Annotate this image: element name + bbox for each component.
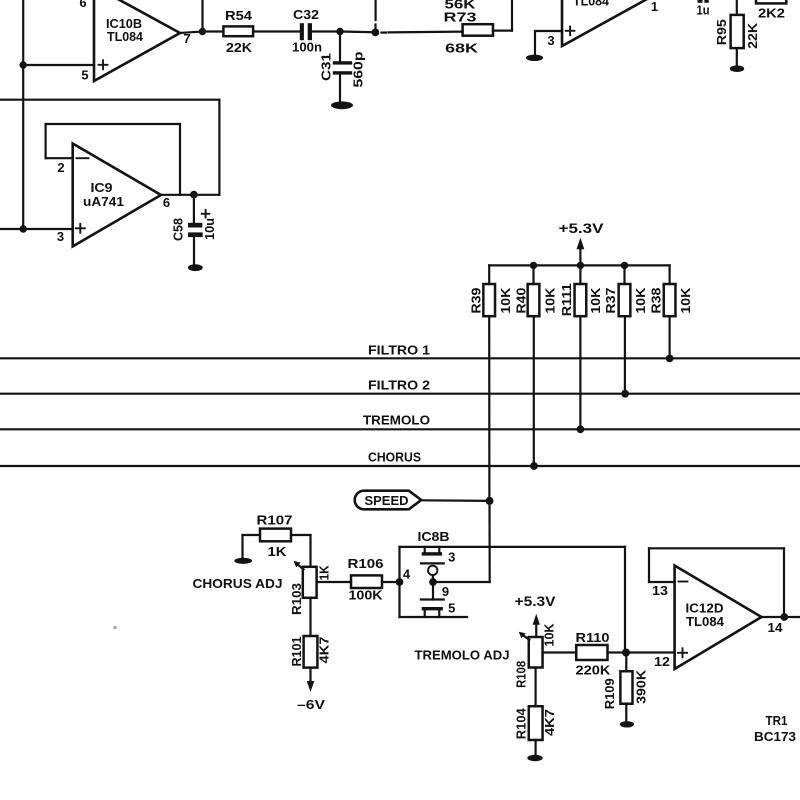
label -6V [297,697,325,712]
svg-text:+5.3V: +5.3V [559,220,605,236]
pin 6 label IC10B [79,0,86,10]
svg-text:R107: R107 [257,512,293,527]
svg-text:IC12D: IC12D [686,602,724,616]
resistor R106 100K [348,556,384,602]
svg-text:C31: C31 [320,53,334,81]
wire R108 bottom to R104 [534,668,536,707]
svg-text:2K2: 2K2 [758,6,785,21]
op-amp IC10B [94,0,180,81]
node junction at C58 top [190,191,198,199]
transistor IC8B top FET channel [422,547,442,556]
node junction R110 R109 pin12 [622,649,630,657]
pin 6 label IC9 [163,195,170,210]
wire R103 bottom to R101 [309,598,311,636]
svg-text:BC173: BC173 [754,730,796,744]
node junction R38 FILTRO1 [666,355,674,363]
svg-text:6: 6 [163,195,170,210]
node junction IC8B gate [429,578,437,586]
node junction rail R40 [530,262,537,269]
wire pin3 to ground [535,31,562,55]
node junction at IC10B output [199,28,206,35]
wire R38 down to FILTRO 1 [668,316,670,358]
wire node to IC12D pin12 [626,651,675,653]
resistor R107 1K [257,512,293,559]
wire IC8B top rail to IC12D column [400,546,626,548]
scan speck [113,626,116,629]
resistor R38 10K [650,265,693,316]
wire IC12D feedback loop [649,548,784,617]
wire IC9 output [161,194,219,196]
svg-text:4: 4 [403,567,411,582]
pin 3 label [547,33,554,48]
minus dash IC12D [679,581,688,583]
svg-text:5: 5 [448,601,455,616]
svg-text:10K: 10K [543,288,557,314]
svg-text:TREMOLO: TREMOLO [363,414,430,428]
node junction at C31 top [336,28,343,35]
node junction IC12D output [780,613,788,621]
svg-text:TL084: TL084 [573,0,609,9]
svg-text:R106: R106 [348,556,384,571]
power arrow +5.3V [577,238,585,266]
wire long feedback horizontal y=100 [0,99,219,101]
svg-text:22K: 22K [746,23,760,49]
resistor R101 4K7 [290,636,331,668]
svg-text:R110: R110 [576,630,610,645]
svg-text:100K: 100K [349,588,384,603]
svg-text:R108: R108 [515,661,529,688]
pin 7 label IC10B [183,31,190,46]
svg-text:10K: 10K [634,288,648,314]
svg-text:100n: 100n [292,39,322,54]
wire IC10B output [180,32,223,34]
svg-text:R111: R111 [560,283,574,316]
svg-text:TL084: TL084 [686,615,724,629]
plus sign IC9 [76,224,85,233]
analog switch IC8B label [418,530,450,544]
potentiometer R103 1K [290,561,331,615]
plus sign C58 polarity [202,210,210,218]
svg-text:9: 9 [442,584,449,599]
node junction R37 FILTRO2 [621,390,629,398]
wire up from output node [201,0,203,32]
pin 13 label [652,583,668,598]
net TREMOLO bus line [0,414,800,430]
wire IC8B rail down to node [624,547,626,653]
svg-text:3: 3 [57,229,64,244]
wire R109 to ground [625,704,627,721]
wire R107 left to ground [243,535,261,557]
ground below R104 [527,755,542,761]
svg-text:C58: C58 [172,218,186,241]
ground below R95 [730,65,744,72]
wire broken vertical above node [374,0,376,28]
resistor R109 390K [603,653,648,710]
label CHORUS ADJ [193,577,283,591]
pin 3 label IC9 [57,229,64,244]
svg-text:2: 2 [57,160,64,175]
svg-text:R103: R103 [290,583,304,615]
svg-text:SPEED: SPEED [365,494,409,508]
wire R73 up to op-amp [493,0,512,31]
capacitor label 1u cut at top [697,0,710,18]
ground below C31 [331,101,353,109]
net CHORUS bus line [0,451,800,466]
op-amp IC12D [675,566,762,670]
svg-text:10u: 10u [203,218,217,240]
wire R110 to node [608,651,627,653]
wire feedback right vertical [218,100,220,195]
wire R95 to ground [736,48,738,66]
resistor 2K2 cut at top [756,0,786,21]
plus sign IC12D [678,648,687,657]
wire speed column down to IC8B gate [433,501,490,582]
potentiometer R108 10K [515,624,557,688]
transistor TR1 BC173 label [754,714,796,744]
svg-text:1K: 1K [317,565,331,580]
svg-text:4K7: 4K7 [543,709,557,736]
svg-text:IC9: IC9 [91,181,113,195]
svg-text:R95: R95 [715,19,729,45]
svg-text:13: 13 [652,583,668,598]
node junction R111 TREMOLO [577,425,585,433]
wire IC8B bottom rail [400,616,468,618]
wire IC12D output [762,616,800,618]
wire R37 down to FILTRO 2 [624,316,626,394]
svg-text:R39: R39 [470,288,484,314]
svg-text:R40: R40 [515,288,529,314]
transistor IC8B bottom FET gate [421,582,444,600]
svg-text:IC8B: IC8B [418,530,450,544]
svg-text:R38: R38 [650,288,664,314]
svg-text:CHORUS ADJ: CHORUS ADJ [193,577,283,591]
svg-text:10K: 10K [679,288,693,314]
svg-text:3: 3 [448,550,455,565]
power +5.3V label tremolo [515,594,556,609]
resistor R95 22K [715,15,760,49]
wire R108 wiper to R110 [543,651,577,653]
wire R40 down to CHORUS [533,316,535,466]
svg-text:12: 12 [654,654,670,669]
svg-text:560p: 560p [352,51,366,87]
svg-text:6: 6 [79,0,86,10]
wire R111 down to TREMOLO [579,265,581,429]
power arrow +5.3V tremolo [533,614,540,637]
node junction IC8B input [396,578,404,586]
capacitor C32 100n [292,7,322,54]
inverter bubble IC8B [428,566,437,582]
ground below R109 [620,721,634,727]
svg-text:R54: R54 [225,8,253,23]
wire SPEED to node [421,499,489,502]
resistor R37 10K [604,265,648,316]
svg-text:TR1: TR1 [766,714,788,728]
svg-text:390K: 390K [635,670,649,704]
svg-text:FILTRO 1: FILTRO 1 [368,343,430,357]
svg-text:1u: 1u [697,4,710,18]
svg-text:–6V: –6V [297,697,325,712]
capacitor C31 560p [320,32,366,102]
wire R104 to ground [534,740,536,755]
pin 9 label IC8B [442,584,449,599]
pin 14 label [768,620,784,635]
power +5.3V label [559,220,605,236]
svg-text:C32: C32 [293,7,319,22]
svg-text:14: 14 [768,620,784,635]
wire R106 to IC8B input [382,581,400,583]
resistor R73 68K [444,0,494,56]
op-amp IC12A TL084 top right [562,0,648,46]
minus dash IC9 inverting input [77,157,89,159]
pin 4 label IC8B [403,567,411,582]
wire node to node [340,30,375,33]
plus sign IC12A [566,27,575,36]
plus sign IC10B noninverting input [99,60,108,69]
pin 5 label IC8B [448,601,455,616]
svg-text:1: 1 [651,0,658,14]
svg-text:4K7: 4K7 [317,636,331,663]
svg-text:IC10B: IC10B [106,17,142,31]
net FILTRO 2 bus line [0,379,800,394]
resistor R40 10K [515,265,558,316]
wire +5.3V rail [489,264,669,266]
svg-text:1K: 1K [268,544,288,559]
resistor R39 10K [470,265,514,316]
wire pin5 of IC10B [23,64,94,66]
resistor R104 4K7 [515,706,558,740]
resistor R54 22K [223,8,253,55]
wire left vertical bus x=23 [22,0,24,229]
wire node to R73 with scan gap [382,31,463,34]
ground below R107 [234,558,252,564]
node junction rail R111 [577,262,584,269]
svg-text:TL084: TL084 [107,30,143,44]
transistor IC8B top FET gate [421,562,444,564]
wire IC9 pin3 from left [0,228,73,230]
net FILTRO 1 bus line [0,343,800,358]
svg-text:R37: R37 [604,288,618,314]
svg-text:5: 5 [81,68,88,83]
svg-text:R73: R73 [444,10,477,25]
ground below C58 [188,264,203,271]
svg-text:R104: R104 [515,708,529,739]
svg-text:TREMOLO ADJ: TREMOLO ADJ [415,649,510,663]
node junction rail R37 [621,262,628,269]
resistor R111 10K [560,283,603,316]
node junction pin3 bus [20,225,27,232]
transistor IC8B bottom FET channel [422,607,443,617]
svg-text:10K: 10K [499,288,513,314]
svg-text:10K: 10K [543,624,557,647]
node junction right of C31 [372,29,380,37]
svg-text:22K: 22K [226,40,253,55]
svg-text:R101: R101 [290,636,304,666]
op-amp IC9 uA741 [73,144,161,247]
svg-text:uA741: uA741 [83,195,124,209]
wire IC9 pin2 feedback loop [46,124,180,195]
svg-text:68K: 68K [445,41,479,56]
node SPEED flag [355,491,421,510]
pin 5 label IC10B [81,68,88,83]
node junction SPEED column [486,497,494,505]
svg-text:220K: 220K [576,663,612,678]
node junction at IC10B pin5 wire [20,61,27,68]
svg-text:R109: R109 [603,678,617,709]
capacitor C58 10u polarized [172,195,217,265]
svg-text:FILTRO 2: FILTRO 2 [368,379,430,393]
pin 12 label [654,654,670,669]
power arrow -6V [307,668,315,692]
svg-text:10K: 10K [589,288,603,314]
wire IC8B left bracket [398,547,400,617]
label TREMOLO ADJ [415,649,510,663]
resistor R110 220K [576,630,612,678]
wire R103 wiper to R106 [317,581,351,583]
wire C32 to node [312,30,340,32]
node junction R40 CHORUS [530,462,538,470]
ground at IC12A pin3 [526,55,543,61]
svg-text:CHORUS: CHORUS [368,451,421,465]
wire R107 right down to R103 [291,535,311,567]
pin 2 label IC9 [57,160,64,175]
pin 3 label IC8B [448,550,455,565]
svg-text:+5.3V: +5.3V [515,594,556,609]
wire top into R95 [736,0,738,15]
pin 1 label [651,0,658,14]
wire R54 to C32 [253,30,300,32]
wire R39 down to speed node [488,316,490,501]
svg-text:3: 3 [547,33,554,48]
